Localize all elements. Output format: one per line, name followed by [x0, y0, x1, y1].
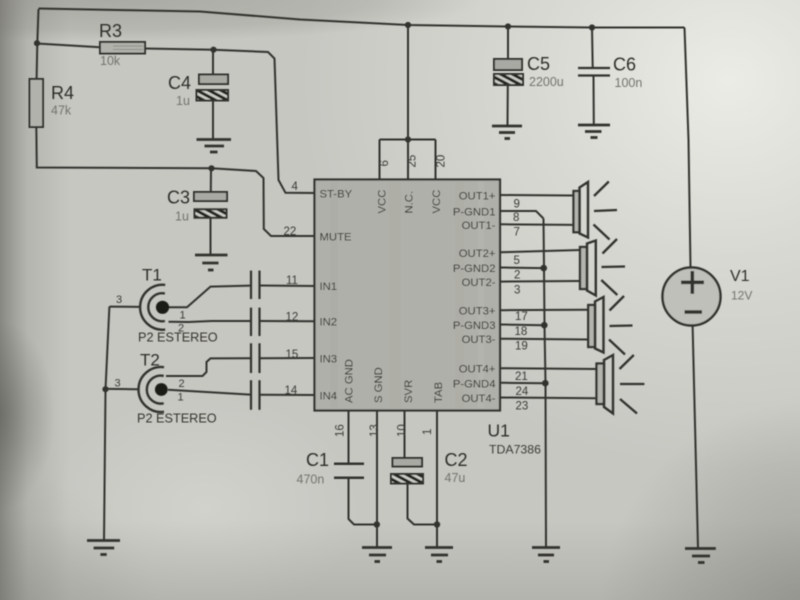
- svg-text:14: 14: [285, 385, 298, 397]
- svg-text:13: 13: [369, 424, 381, 437]
- svg-text:IN3: IN3: [320, 354, 338, 366]
- node P-GND3 junction: [541, 322, 548, 329]
- svg-text:15: 15: [286, 349, 299, 361]
- svg-text:12: 12: [286, 312, 299, 324]
- svg-text:C3: C3: [167, 188, 190, 208]
- svg-text:R3: R3: [99, 21, 122, 41]
- wire pin3 OUT2-: [500, 280, 580, 283]
- node C2 junction: [434, 521, 440, 527]
- wire left border top: [37, 9, 39, 79]
- wire pin7 OUT1-: [500, 223, 574, 226]
- wire pin2 P-GND2: [500, 267, 543, 270]
- svg-text:C2: C2: [445, 450, 468, 470]
- svg-text:4: 4: [292, 181, 299, 193]
- svg-text:47k: 47k: [51, 104, 72, 118]
- capacitor input IN3: [251, 343, 260, 373]
- wire pin10 drop: [404, 410, 406, 458]
- svg-text:1u: 1u: [176, 94, 190, 108]
- svg-text:C1: C1: [306, 450, 329, 470]
- svg-text:10: 10: [397, 424, 409, 437]
- wire T input ground drop: [104, 307, 109, 541]
- node junction R3/R4: [34, 40, 40, 46]
- svg-text:17: 17: [515, 311, 528, 323]
- node C1 junction: [374, 521, 380, 527]
- speaker LS2: [580, 239, 625, 296]
- svg-text:OUT4+: OUT4+: [459, 364, 496, 376]
- ground under C6: [578, 125, 610, 138]
- capacitor C3: [194, 168, 227, 254]
- wire P-GND bus: [544, 219, 547, 548]
- wire pin8 P-GND1: [500, 211, 544, 219]
- wire T2 pin2 to IN3: [166, 358, 250, 376]
- wire pin23 OUT4-: [500, 397, 597, 400]
- ground under C4: [197, 140, 232, 153]
- speaker LS1: [574, 182, 618, 240]
- wire cap to IN1: [260, 285, 315, 288]
- wire T2 pin3: [107, 388, 138, 390]
- svg-text:5: 5: [514, 255, 520, 267]
- svg-text:2: 2: [514, 270, 520, 282]
- svg-text:22: 22: [284, 226, 297, 238]
- wire cap to IN3: [260, 357, 315, 359]
- ground under pin1: [425, 548, 453, 562]
- svg-text:47u: 47u: [445, 471, 466, 485]
- connector T1 jack: [140, 285, 169, 330]
- svg-text:C4: C4: [168, 73, 191, 93]
- wire pin16 drop: [348, 410, 350, 464]
- svg-text:11: 11: [286, 275, 298, 287]
- wire pin24 P-GND4: [500, 382, 546, 384]
- svg-text:P-GND3: P-GND3: [453, 320, 496, 332]
- svg-text:24: 24: [516, 386, 529, 398]
- wire C2 to gnd node: [408, 484, 438, 525]
- wire pin17 OUT3+: [500, 309, 588, 311]
- ground under T connectors: [87, 541, 120, 555]
- wire pin18 P-GND3: [500, 324, 545, 327]
- svg-text:20: 20: [436, 155, 448, 168]
- wire T1 pin2 to IN2: [169, 321, 251, 322]
- svg-text:OUT1+: OUT1+: [459, 191, 496, 203]
- svg-text:VCC: VCC: [377, 190, 389, 214]
- wire pin19 OUT3-: [500, 338, 588, 341]
- wire vcc bracket: [380, 140, 436, 181]
- svg-text:OUT2+: OUT2+: [459, 248, 496, 260]
- node bracket: [405, 136, 411, 142]
- svg-text:100n: 100n: [615, 76, 643, 90]
- capacitor input IN2: [251, 308, 260, 336]
- node C5 tap: [505, 23, 511, 29]
- svg-text:P-GND1: P-GND1: [453, 207, 496, 219]
- speaker LS3: [588, 296, 632, 355]
- svg-text:19: 19: [515, 341, 528, 353]
- svg-text:T2: T2: [140, 351, 160, 370]
- svg-text:16: 16: [335, 424, 347, 437]
- wire V1 to ground: [693, 326, 698, 549]
- svg-text:OUT3+: OUT3+: [459, 306, 496, 318]
- svg-text:1: 1: [422, 429, 434, 435]
- capacitor C4: [197, 52, 229, 139]
- ground under V1: [685, 549, 716, 563]
- voltage source V1: [663, 268, 721, 326]
- svg-text:12V: 12V: [731, 289, 752, 303]
- svg-text:TDA7386: TDA7386: [489, 443, 541, 457]
- node P-GND4 junction: [542, 380, 549, 387]
- svg-text:OUT4-: OUT4-: [462, 393, 496, 405]
- ground under C3: [195, 255, 228, 270]
- svg-text:9: 9: [514, 199, 520, 211]
- wire pin21 OUT4+: [500, 367, 597, 370]
- svg-text:N.C.: N.C.: [404, 191, 416, 214]
- wire pin9 OUT1+: [500, 194, 574, 197]
- wire cap to IN4: [260, 394, 315, 396]
- ground under P-GND bus: [532, 548, 560, 562]
- svg-text:SVR: SVR: [403, 380, 415, 403]
- svg-text:21: 21: [515, 371, 528, 383]
- svg-text:S GND: S GND: [373, 367, 385, 403]
- svg-text:25: 25: [407, 155, 419, 168]
- connector T2 jack: [139, 367, 168, 412]
- wire T1 pin3: [109, 306, 140, 308]
- svg-text:10k: 10k: [100, 54, 121, 68]
- resistor R3: [37, 42, 145, 54]
- wire pin5 OUT2+: [500, 250, 580, 252]
- capacitor C2: [391, 458, 423, 484]
- node supply tap: [405, 22, 411, 28]
- ground under pin13: [362, 548, 392, 562]
- wire C1 to gnd node: [349, 478, 377, 525]
- svg-text:OUT1-: OUT1-: [462, 220, 496, 232]
- wire R4 bottom to C3 row: [36, 127, 211, 168]
- svg-text:18: 18: [515, 326, 528, 338]
- svg-text:C5: C5: [527, 54, 550, 74]
- wire supply drop: [407, 25, 409, 140]
- svg-text:U1: U1: [488, 421, 510, 441]
- wire right border to V1: [685, 28, 691, 268]
- svg-text:2: 2: [178, 323, 184, 335]
- svg-text:VCC: VCC: [431, 190, 443, 214]
- node C3 junction: [208, 165, 214, 171]
- capacitor C5: [494, 27, 523, 126]
- svg-text:1: 1: [180, 310, 186, 322]
- node T2 pin3 junction: [102, 386, 108, 392]
- capacitor input IN4: [251, 380, 260, 410]
- svg-text:OUT2-: OUT2-: [462, 277, 496, 289]
- wire T1 pin1 to IN1: [169, 286, 250, 308]
- wire pin13 drop: [376, 410, 378, 548]
- node C6 tap: [589, 24, 595, 30]
- wire top border: [39, 9, 685, 28]
- svg-text:P-GND4: P-GND4: [453, 378, 496, 390]
- wire pin1 drop: [436, 410, 438, 548]
- svg-text:470n: 470n: [297, 473, 325, 487]
- svg-text:3: 3: [514, 285, 520, 297]
- ground under C5: [492, 126, 522, 139]
- capacitor C1: [334, 464, 364, 478]
- svg-text:ST-BY: ST-BY: [320, 189, 353, 201]
- svg-text:T1: T1: [142, 266, 162, 285]
- wire MUTE pin22: [212, 168, 315, 236]
- node P-GND2 junction: [540, 265, 547, 272]
- svg-text:3: 3: [116, 294, 122, 306]
- wire ST-BY pin4: [214, 50, 315, 193]
- svg-text:6: 6: [379, 160, 391, 166]
- svg-text:IN2: IN2: [320, 317, 338, 329]
- svg-text:C6: C6: [613, 55, 636, 75]
- capacitor C6: [578, 28, 610, 125]
- svg-text:23: 23: [516, 401, 529, 413]
- svg-text:AC GND: AC GND: [344, 359, 356, 403]
- op-amp U1 TDA7386 body: [315, 180, 501, 411]
- svg-text:TAB: TAB: [433, 382, 445, 403]
- capacitor input IN1: [251, 271, 260, 299]
- svg-text:OUT3-: OUT3-: [462, 334, 496, 346]
- svg-text:MUTE: MUTE: [320, 232, 352, 244]
- svg-text:8: 8: [513, 212, 519, 224]
- wire T2 pin1 to IN4: [168, 390, 250, 395]
- svg-text:R4: R4: [51, 83, 74, 103]
- resistor R4: [30, 79, 44, 127]
- speaker LS4: [597, 355, 645, 414]
- svg-text:2200u: 2200u: [529, 75, 564, 89]
- svg-text:7: 7: [514, 227, 520, 239]
- svg-text:1: 1: [178, 392, 184, 404]
- svg-text:V1: V1: [730, 268, 750, 285]
- svg-text:P2 ESTEREO: P2 ESTEREO: [137, 411, 217, 425]
- svg-text:2: 2: [179, 378, 185, 390]
- svg-text:IN1: IN1: [320, 281, 338, 293]
- wire R3 to C4 node: [145, 49, 214, 50]
- svg-text:P-GND2: P-GND2: [453, 263, 496, 275]
- svg-text:3: 3: [115, 378, 121, 390]
- svg-text:1u: 1u: [175, 210, 189, 224]
- wire cap to IN2: [260, 320, 315, 322]
- svg-text:IN4: IN4: [320, 391, 338, 403]
- node ST-BY junction: [210, 47, 216, 53]
